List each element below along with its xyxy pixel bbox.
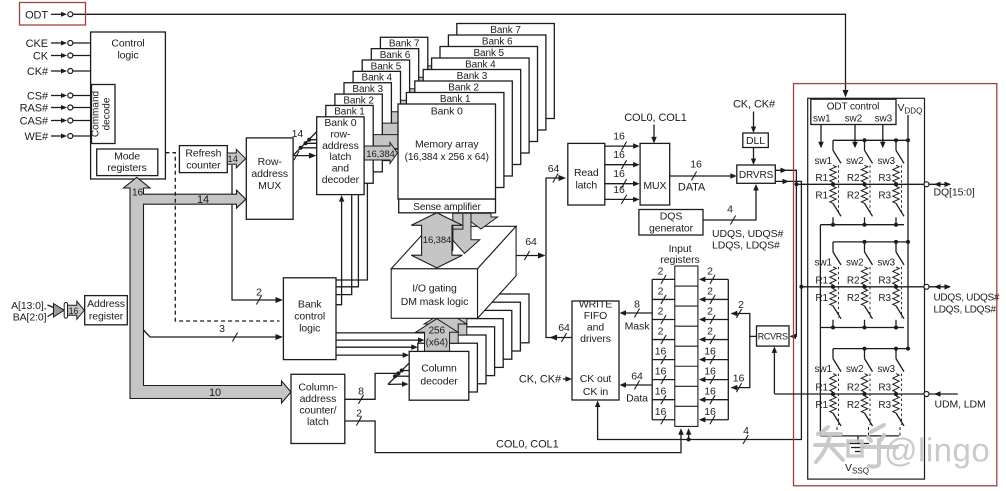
wire DQS strobes to input registers clock: [687, 438, 691, 442]
svg-text:RCVRS: RCVRS: [758, 331, 788, 341]
switch sw1: [832, 242, 834, 252]
gray 16,384 bus arrow bank 3: [391, 108, 422, 129]
svg-text:sw1: sw1: [815, 364, 833, 375]
wire 64 to read latch label: [553, 174, 558, 183]
svg-text:14: 14: [227, 154, 237, 165]
svg-text:CKE: CKE: [26, 38, 48, 50]
switch sw3: [895, 140, 897, 150]
switch sw1: [832, 349, 834, 359]
wire DLL to DRVRS: [753, 148, 755, 162]
termination inner box: [808, 98, 925, 479]
bank 0 row-address latch box: [317, 117, 364, 195]
svg-text:Control: Control: [111, 38, 144, 50]
column decoder stack box 6: [461, 302, 521, 351]
svg-text:64: 64: [631, 371, 643, 383]
wire 2-bit to bank control logic: [232, 165, 279, 300]
svg-text:CAS#: CAS#: [20, 116, 49, 128]
dashed select line: [838, 267, 840, 318]
stacked sense-amp gray arrows behind: [465, 213, 498, 229]
svg-text:Column-: Column-: [298, 382, 338, 394]
svg-text:sw3: sw3: [878, 364, 896, 375]
svg-text:CK, CK#: CK, CK#: [733, 99, 776, 111]
resistor R3 lower: [893, 396, 899, 413]
resistor R2 lower: [861, 186, 867, 203]
switch lower: [865, 413, 873, 426]
input registers column: [675, 266, 698, 426]
svg-text:DM mask logic: DM mask logic: [401, 296, 469, 308]
gray 256 (x64) arrow column decoder to I/O gating: [416, 319, 458, 352]
resistor R1 lower: [830, 186, 836, 203]
gray address bus: 16 to mode registers, 14 to row mux, 10 to column counter: [124, 177, 292, 403]
column decoder stack box 5: [452, 310, 512, 359]
switch lower: [896, 413, 904, 426]
svg-text:Bank 3: Bank 3: [352, 84, 383, 95]
refresh counter block: [179, 146, 227, 173]
bank 1 row-address latch box: [326, 105, 373, 183]
svg-text:sw3: sw3: [878, 156, 896, 167]
bank 1 memory array box: [406, 93, 504, 188]
column decoder front box: [409, 351, 469, 400]
column decoder stack box 2: [426, 335, 486, 384]
sense amplifier strip: [399, 199, 496, 213]
svg-text:2: 2: [256, 287, 262, 299]
svg-text:CK, CK#: CK, CK#: [519, 374, 562, 386]
svg-text:16: 16: [655, 406, 667, 418]
svg-text:R2: R2: [847, 293, 860, 304]
svg-text:R1: R1: [815, 400, 828, 411]
wire DM pads up into RCVRS: [773, 350, 775, 394]
svg-text:2: 2: [707, 285, 713, 297]
resistor R2 upper: [861, 267, 867, 285]
mode registers block: [97, 149, 158, 176]
svg-text:address: address: [300, 393, 337, 405]
svg-text:Bank 6: Bank 6: [380, 50, 411, 61]
fan diagonal: [293, 132, 317, 156]
dashed select line: [838, 165, 840, 215]
main 16,384 double arrow sense amp to I/O gating: [411, 213, 462, 268]
svg-text:Sense amplifier: Sense amplifier: [413, 202, 481, 213]
DQS pad line: [801, 286, 923, 288]
svg-text:decoder: decoder: [420, 376, 458, 388]
switch lower: [896, 203, 904, 216]
wire 3 to bank control logic: [144, 330, 280, 337]
svg-text:latch: latch: [330, 151, 352, 163]
svg-text:8: 8: [358, 386, 364, 398]
DM pad line: [774, 393, 923, 395]
RCVRS block: [757, 326, 790, 346]
svg-text:sw2: sw2: [846, 364, 864, 375]
column-address counter/latch block: [291, 374, 345, 443]
svg-text:CS#: CS#: [27, 91, 49, 103]
svg-text:CK: CK: [33, 51, 49, 63]
svg-text:sw2: sw2: [846, 156, 864, 167]
resistor R2 lower: [861, 289, 867, 306]
svg-text:latch: latch: [307, 416, 329, 428]
resistor R3 lower: [893, 289, 899, 306]
svg-text:MUX: MUX: [258, 180, 281, 192]
wire 2 COL0,COL1 from counter: [345, 421, 681, 453]
svg-text:logic: logic: [117, 50, 138, 62]
svg-text:row-: row-: [330, 128, 351, 140]
DQ pad line: [796, 183, 923, 185]
svg-text:Mode: Mode: [114, 151, 140, 163]
svg-text:16: 16: [733, 373, 745, 385]
dashed select line: [901, 165, 903, 215]
switch sw2: [864, 242, 866, 252]
switch lower: [833, 203, 841, 216]
bank 4 memory array box: [432, 58, 529, 153]
ground symbol: [857, 436, 859, 444]
svg-text:Command: Command: [91, 91, 102, 137]
column decoder stack box 3: [435, 327, 495, 376]
svg-text:16,384: 16,384: [423, 235, 451, 246]
svg-text:16: 16: [655, 346, 667, 358]
svg-text:and: and: [332, 163, 349, 175]
svg-text:R2: R2: [847, 275, 860, 286]
svg-text:16: 16: [613, 184, 625, 196]
bank 6 row-address latch box: [371, 49, 418, 127]
svg-text:16,384: 16,384: [366, 149, 394, 160]
svg-text:Column: Column: [421, 363, 457, 375]
svg-text:14: 14: [292, 128, 304, 140]
gray 16 arrow into address register: [54, 304, 65, 318]
wire 64 write fifo to bus: [553, 337, 572, 339]
resistor R3 upper: [893, 267, 899, 285]
svg-text:16: 16: [704, 406, 716, 418]
svg-text:DQS: DQS: [660, 211, 683, 223]
svg-text:registers: registers: [107, 162, 146, 174]
wire 64 I/O gating to internal data bus: [516, 255, 541, 257]
bank 3 memory array box: [423, 70, 521, 165]
svg-text:2: 2: [738, 299, 744, 311]
internal 64 data bus vertical: [546, 178, 562, 338]
svg-text:Data: Data: [626, 393, 648, 405]
column decoder stack box 4: [444, 319, 504, 368]
VSSQ-side rail: [820, 327, 904, 329]
svg-text:R3: R3: [878, 190, 891, 201]
svg-text:2: 2: [658, 265, 664, 277]
gray 16,384 bus arrow bank 1: [373, 131, 406, 152]
svg-text:MUX: MUX: [643, 180, 666, 192]
wire ODT to buffer: [51, 13, 62, 15]
DRVRS block: [737, 165, 776, 183]
svg-text:R1: R1: [815, 275, 828, 286]
watermark zhihu @lingo: [815, 425, 897, 467]
svg-text:Bank 7: Bank 7: [389, 39, 420, 50]
wire DQ pad line to RCVRS: [792, 184, 797, 336]
VDDQ rail: [833, 348, 908, 350]
red highlight box around ODT: [20, 3, 86, 26]
svg-text:16: 16: [704, 386, 716, 398]
left VSSQ vertical: [819, 225, 821, 436]
svg-text:COL0, COL1: COL0, COL1: [624, 112, 687, 124]
svg-text:WRITE: WRITE: [579, 299, 612, 311]
gray 16,384 bus arrow bank 0: [364, 143, 397, 164]
svg-text:register: register: [89, 311, 124, 323]
svg-text:logic: logic: [299, 323, 320, 335]
input registers left comb to write FIFO: [651, 279, 653, 419]
VDDQ rail: [833, 241, 908, 243]
sw control arrows: [820, 125, 822, 145]
svg-text:R2: R2: [847, 400, 860, 411]
svg-text:ODT: ODT: [25, 10, 48, 22]
svg-text:2: 2: [707, 326, 713, 338]
svg-text:Bank 2: Bank 2: [343, 95, 374, 106]
DQS generator block: [639, 210, 703, 236]
svg-text:(x64): (x64): [426, 338, 448, 349]
svg-text:16: 16: [655, 366, 667, 378]
resistor R3 lower: [893, 186, 899, 203]
svg-text:2: 2: [658, 306, 664, 318]
wires 16x4 read latch to MUX: [605, 145, 636, 147]
gray 16,384 bus arrow bank 2: [382, 120, 414, 141]
svg-text:Bank: Bank: [298, 299, 322, 311]
svg-text:address: address: [322, 140, 359, 152]
svg-text:CK out: CK out: [580, 373, 612, 385]
VDDQ rail vertical: [907, 115, 909, 349]
wire 16 DATA MUX to DRVRS: [670, 175, 733, 177]
svg-text:16: 16: [132, 188, 143, 199]
resistor R1 lower: [830, 289, 836, 306]
control logic block: [91, 32, 166, 179]
svg-text:control: control: [294, 311, 325, 323]
dashed select line: [901, 374, 903, 425]
resistor R3 upper: [893, 165, 899, 182]
svg-text:3: 3: [219, 323, 225, 335]
svg-text:Bank 4: Bank 4: [362, 73, 393, 84]
VSSQ-side rail: [820, 224, 904, 226]
svg-text:DATA: DATA: [678, 182, 706, 194]
svg-text:R3: R3: [878, 400, 891, 411]
svg-text:256: 256: [429, 326, 446, 337]
red ODT termination outline: [794, 84, 997, 486]
resistor R2 upper: [861, 165, 867, 182]
I/O gating DM mask logic 3D box: [391, 226, 516, 268]
switch sw3: [895, 349, 897, 359]
svg-text:Bank 5: Bank 5: [371, 61, 402, 72]
row-address MUX block: [246, 138, 293, 219]
svg-text:counter/: counter/: [299, 405, 336, 417]
column decoder stack box 1: [418, 343, 478, 392]
svg-text:I/O gating: I/O gating: [412, 283, 457, 295]
svg-text:DRVRS: DRVRS: [739, 170, 774, 181]
svg-text:Memory array: Memory array: [415, 139, 479, 151]
wire DQS pads down to CK-in (4): [598, 287, 802, 440]
svg-text:DLL: DLL: [746, 135, 765, 147]
svg-text:R1: R1: [815, 190, 828, 201]
input registers right comb from RCVRS: [727, 279, 729, 419]
svg-text:2: 2: [356, 408, 362, 420]
svg-text:2: 2: [707, 306, 713, 318]
wire DRVRS to DQ pads: [775, 170, 796, 184]
svg-text:16: 16: [613, 149, 625, 161]
switch sw2: [864, 140, 866, 150]
gray 16,384 bus arrow bank 4: [401, 97, 432, 118]
svg-text:drivers: drivers: [580, 333, 611, 345]
ODT input buffer circle: [68, 12, 73, 17]
wire ODT net across top to ODT control: [73, 14, 845, 93]
svg-text:R3: R3: [878, 293, 891, 304]
svg-text:Refresh: Refresh: [185, 148, 221, 160]
bank 6 memory array box: [448, 35, 546, 130]
address register block: [85, 296, 128, 325]
wire DRVRS to DQS pads: [775, 181, 801, 286]
wire 8 column address to column decoders (fan): [345, 373, 399, 399]
svg-text:R2: R2: [847, 173, 860, 184]
svg-text:UDQS, UDQS#: UDQS, UDQS#: [712, 228, 784, 240]
switch lower: [896, 306, 904, 319]
svg-text:DQ[15:0]: DQ[15:0]: [934, 187, 975, 199]
svg-text:4: 4: [743, 425, 749, 437]
resistor R3 upper: [893, 374, 899, 392]
ODT control block: [811, 99, 896, 124]
svg-text:UDM, LDM: UDM, LDM: [935, 399, 986, 411]
svg-text:sw1: sw1: [815, 257, 833, 268]
svg-text:2: 2: [658, 326, 664, 338]
gray 16,384 bus arrow bank 6: [419, 74, 448, 95]
svg-text:2: 2: [658, 285, 664, 297]
bank 7 memory array box: [457, 24, 555, 119]
bank 5 memory array box: [440, 47, 538, 142]
svg-text:64: 64: [525, 236, 537, 248]
VDDQ rail: [833, 139, 908, 141]
resistor R1 upper: [830, 165, 836, 182]
switch lower: [865, 203, 873, 216]
wire 8 mask to write FIFO: [624, 312, 653, 314]
svg-text:decoder: decoder: [322, 174, 360, 186]
svg-text:16: 16: [69, 306, 79, 316]
gray 14 arrow refresh counter to row mux: [227, 149, 245, 168]
svg-text:@lingo: @lingo: [884, 432, 990, 469]
switch lower: [833, 306, 841, 319]
svg-text:sw2: sw2: [846, 257, 864, 268]
svg-text:R2: R2: [847, 190, 860, 201]
svg-text:FIFO: FIFO: [584, 310, 608, 322]
switch lower: [833, 413, 841, 426]
output MUX block: [640, 143, 670, 205]
wires bank control logic to column decoder stack: [336, 332, 429, 334]
svg-text:RAS#: RAS#: [20, 103, 49, 115]
svg-text:Bank 0: Bank 0: [324, 117, 356, 129]
svg-text:16: 16: [704, 346, 716, 358]
svg-text:latch: latch: [575, 180, 597, 192]
svg-text:R3: R3: [878, 383, 891, 394]
resistor R2 lower: [861, 396, 867, 413]
dashed select line: [838, 374, 840, 425]
bank 3 row-address latch box: [344, 83, 391, 161]
svg-text:ODT control: ODT control: [827, 102, 880, 113]
bank 2 memory array box: [415, 81, 513, 176]
svg-text:COL0, COL1: COL0, COL1: [496, 439, 559, 451]
svg-text:R2: R2: [847, 383, 860, 394]
wire 4 DQS generator to DRVRS: [703, 188, 756, 220]
bank 0 memory array box: [398, 104, 496, 199]
bank 7 row-address latch box: [380, 37, 427, 115]
read latch block: [568, 143, 605, 205]
svg-text:R3: R3: [878, 275, 891, 286]
svg-text:Mask: Mask: [625, 321, 651, 333]
switch sw1: [832, 140, 834, 150]
svg-text:generator: generator: [649, 223, 694, 235]
svg-text:R1: R1: [815, 173, 828, 184]
svg-text:address: address: [251, 168, 288, 180]
svg-text:sw3: sw3: [875, 114, 893, 125]
svg-text:R1: R1: [815, 293, 828, 304]
bank 5 row-address latch box: [362, 60, 409, 138]
dashed select line: [869, 374, 871, 425]
stair outline of stacked arrows: [453, 214, 463, 251]
svg-text:Read: Read: [574, 167, 599, 179]
svg-text:2: 2: [707, 265, 713, 277]
svg-text:registers: registers: [660, 254, 699, 266]
svg-text:Address: Address: [87, 298, 125, 310]
svg-text:LDQS, LDQS#: LDQS, LDQS#: [934, 305, 997, 316]
resistor R1 upper: [830, 374, 836, 392]
bank 4 row-address latch box: [353, 71, 400, 149]
svg-text:16: 16: [613, 131, 625, 143]
svg-text:UDQS, UDQS#: UDQS, UDQS#: [934, 293, 1000, 304]
svg-text:64: 64: [548, 163, 560, 175]
resistor R2 upper: [861, 374, 867, 392]
wire 64 data to write FIFO: [624, 384, 653, 386]
wires RCVRS to input registers: [731, 314, 750, 388]
svg-text:and: and: [587, 322, 604, 334]
svg-text:CK#: CK#: [27, 66, 49, 78]
resistor R1 lower: [830, 396, 836, 413]
DLL block: [743, 133, 769, 148]
command decode block (rotated label): [92, 85, 116, 144]
svg-text:4: 4: [727, 204, 733, 216]
svg-text:Row-: Row-: [258, 156, 283, 168]
svg-text:R3: R3: [878, 173, 891, 184]
svg-text:64: 64: [558, 322, 570, 334]
dashed select line: [869, 165, 871, 215]
bank control logic block: [283, 278, 336, 360]
svg-text:14: 14: [197, 194, 209, 206]
svg-text:10: 10: [209, 387, 221, 399]
svg-text:8: 8: [634, 299, 640, 311]
svg-text:CK in: CK in: [583, 386, 608, 398]
svg-text:BA[2:0]: BA[2:0]: [13, 312, 47, 324]
switch sw2: [864, 349, 866, 359]
dashed wire mode registers to bank control logic: [165, 153, 279, 321]
svg-text:16: 16: [704, 366, 716, 378]
dashed select line: [901, 267, 903, 318]
svg-text:16: 16: [655, 386, 667, 398]
svg-text:sw2: sw2: [845, 114, 863, 125]
svg-text:16: 16: [690, 159, 702, 171]
column decoder stack box 7: [469, 294, 529, 343]
resistor R1 upper: [830, 267, 836, 285]
svg-text:A[13:0],: A[13:0],: [11, 300, 46, 312]
svg-text:sw3: sw3: [878, 257, 896, 268]
switch lower: [865, 306, 873, 319]
svg-text:counter: counter: [186, 160, 221, 172]
svg-text:sw1: sw1: [813, 114, 831, 125]
svg-text:sw1: sw1: [815, 156, 833, 167]
switch sw3: [895, 242, 897, 252]
stacked gray 256 arrows behind: [433, 303, 475, 336]
svg-text:Bank 0: Bank 0: [431, 106, 463, 118]
gray 16,384 bus arrow bank 5: [410, 85, 440, 106]
write FIFO and drivers block: [572, 301, 619, 400]
dashed select line: [869, 267, 871, 318]
wires bank control logic to row-address latch stack: [336, 165, 367, 280]
svg-text:LDQS, LDQS#: LDQS, LDQS#: [712, 240, 780, 252]
bank 2 row-address latch box: [335, 94, 382, 172]
svg-text:decode: decode: [102, 97, 113, 130]
gray 16,384 bus arrow bank 7: [428, 62, 457, 83]
